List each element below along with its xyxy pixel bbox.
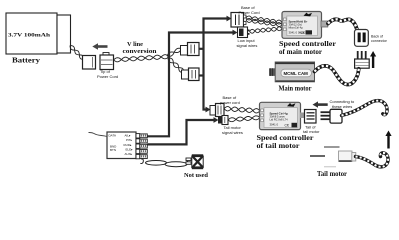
receiver ports xyxy=(136,134,147,159)
cable: tail motor pigtail xyxy=(356,153,389,167)
svg-text:Speed controller: Speed controller xyxy=(279,40,336,48)
wire battery to plug (twisted) xyxy=(70,46,84,60)
arrow up (connect cables) xyxy=(385,131,391,149)
twisted wires: power cord to main ESC xyxy=(246,16,282,27)
twisted wires: lower branch xyxy=(168,58,184,73)
label: Base of power cord (tail) xyxy=(220,95,240,105)
cable: tail plug pigtail xyxy=(342,101,388,116)
connector: 3-pin motor plug xyxy=(355,51,370,68)
svg-text:of tail motor: of tail motor xyxy=(257,142,300,150)
svg-text:V line: V line xyxy=(127,42,143,48)
svg-text:Power Cord: Power Cord xyxy=(97,74,118,79)
svg-text:signal wires: signal wires xyxy=(237,43,258,48)
svg-text:MicroCtrl 4g: MicroCtrl 4g xyxy=(289,26,304,30)
arrow up (plug direction) xyxy=(370,51,376,68)
connector: Base of power cord (tail) xyxy=(210,104,224,117)
svg-text:Speed controller: Speed controller xyxy=(257,134,314,142)
connector: Tail motor signal wires xyxy=(218,116,228,125)
label: Connecting to these wires xyxy=(330,99,355,109)
tail motor M2 (faint) xyxy=(310,147,356,167)
svg-text:DATA: DATA xyxy=(109,134,117,138)
svg-text:Tail motor: Tail motor xyxy=(317,170,347,178)
connector: tail motor plug (3 prongs) xyxy=(321,109,343,123)
ESC output stub xyxy=(321,21,328,27)
connector: tail ESC socket xyxy=(305,110,317,124)
speed controller of tail motor (box) xyxy=(260,102,301,129)
connector: Back of connector xyxy=(355,30,369,47)
wire: receiver pigtail to not-used xyxy=(140,159,188,167)
svg-text:RUD▸: RUD▸ xyxy=(124,143,132,147)
label: Low input signal wires xyxy=(237,38,258,48)
svg-text:signal wires: signal wires xyxy=(222,130,243,135)
connector: Low input signal wires (main) xyxy=(238,27,250,38)
label: Tail of tail motor xyxy=(303,124,320,134)
wire: receiver to main ESC signal xyxy=(148,30,238,137)
svg-text:Power Cord: Power Cord xyxy=(239,10,260,15)
connector: lower V branch xyxy=(182,68,205,81)
label: Back of connector xyxy=(371,35,388,43)
svg-text:3.7V 100mAh: 3.7V 100mAh xyxy=(8,33,50,39)
label: Base of Power Cord (main) xyxy=(239,5,260,15)
svg-text:BTN: BTN xyxy=(110,148,116,152)
svg-text:Back of: Back of xyxy=(371,35,383,39)
wire: receiver to tail ESC signal xyxy=(148,117,219,144)
label: V line conversion xyxy=(123,42,158,55)
speed controller of main motor (box) xyxy=(282,12,322,39)
main motor M1 xyxy=(269,62,315,82)
svg-text:Not used: Not used xyxy=(184,172,208,179)
receiver RX (board) xyxy=(107,132,136,159)
twisted wires: signal to main ESC xyxy=(250,27,283,33)
svg-text:Main motor: Main motor xyxy=(279,85,312,93)
cable: main ESC to back of connector xyxy=(328,19,357,29)
svg-text:AIL▸: AIL▸ xyxy=(125,134,132,138)
svg-text:C€: C€ xyxy=(285,124,289,128)
wire: power bus vertical xyxy=(204,16,232,113)
label: Speed controller of tail motor xyxy=(257,134,314,150)
twisted wires: signal to tail ESC xyxy=(228,116,260,122)
twisted wires: power to tail ESC xyxy=(224,107,260,113)
svg-text:3041 0: 3041 0 xyxy=(270,122,279,126)
connector: upper V branch xyxy=(181,43,204,56)
receiver antenna wire xyxy=(89,132,108,136)
svg-text:conversion: conversion xyxy=(123,49,158,55)
connector: Base of Power Cord (main) xyxy=(231,13,246,28)
svg-text:AUX▸: AUX▸ xyxy=(125,152,133,156)
svg-text:ELE▸: ELE▸ xyxy=(126,147,134,151)
svg-text:of main motor: of main motor xyxy=(279,48,322,56)
svg-text:power cord: power cord xyxy=(220,100,240,105)
svg-text:connector: connector xyxy=(371,39,388,43)
battery B1 xyxy=(6,13,71,54)
twisted wires: upper branch xyxy=(167,48,182,56)
connector plug P1 xyxy=(83,56,96,70)
connector: Tip of Power Cord xyxy=(100,53,114,70)
svg-text:Ltd RC 0v8 L74: Ltd RC 0v8 L74 xyxy=(270,118,289,122)
svg-text:C€: C€ xyxy=(301,31,305,35)
label: Tail motor signal wires xyxy=(222,125,243,135)
tail ESC output stub xyxy=(300,113,305,119)
connector: not used (taped) xyxy=(186,154,203,169)
svg-text:tail motor: tail motor xyxy=(303,129,320,134)
svg-text:these wires: these wires xyxy=(332,104,352,109)
svg-text:MCML CAM: MCML CAM xyxy=(284,71,309,76)
label: Tip of Power Cord xyxy=(97,69,118,79)
svg-text:PIT▸: PIT▸ xyxy=(126,138,133,142)
cable: main motor to 3-pin plug xyxy=(315,66,359,85)
label: Speed controller of main motor xyxy=(279,40,336,56)
svg-text:Battery: Battery xyxy=(12,56,40,65)
twisted wires: V line conversion bundle xyxy=(114,55,170,62)
arrow pointing left (tail plug direction) xyxy=(313,101,328,107)
arrow pointing left (plug direction) xyxy=(92,43,107,49)
